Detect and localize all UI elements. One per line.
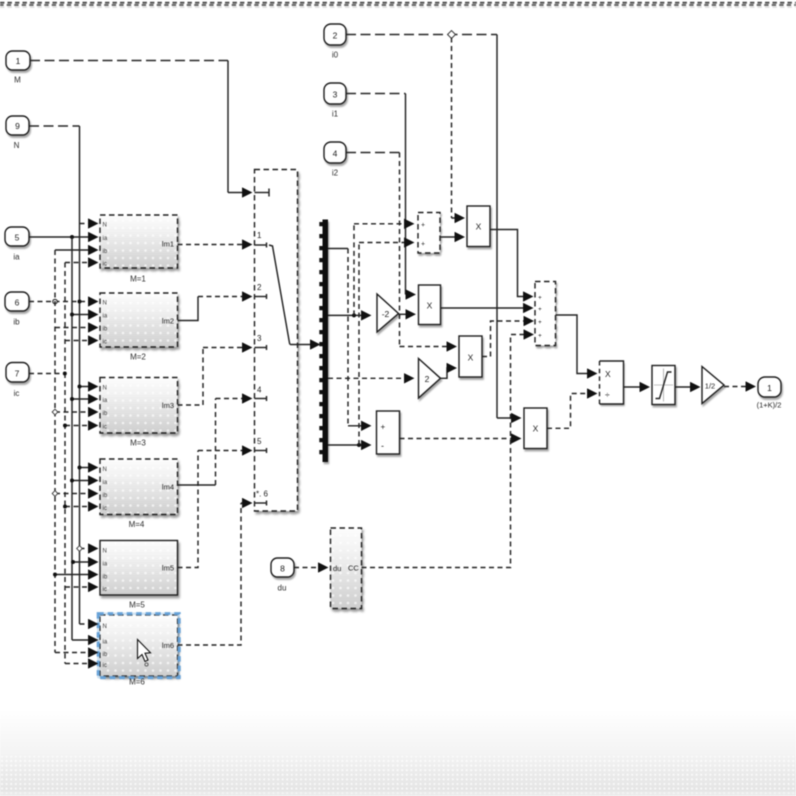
subsystem lm3 M=3	[100, 378, 178, 448]
wire ia vertical bus	[71, 237, 73, 640]
product X4	[524, 408, 547, 449]
svg-text:lm4: lm4	[162, 483, 174, 492]
wire S1 out to X1	[440, 236, 463, 238]
svg-text:M=5: M=5	[129, 601, 145, 610]
lm2 input stubs	[55, 313, 97, 341]
wire bus B vertical	[64, 263, 66, 664]
svg-text:2: 2	[333, 31, 338, 41]
svg-text:+: +	[381, 423, 386, 432]
demux bar	[323, 220, 329, 463]
svg-text:8: 8	[280, 564, 285, 574]
inport 2 i0	[324, 24, 346, 60]
wire demux out3 to gain 2	[328, 377, 413, 379]
lm6 input stubs	[55, 624, 97, 664]
svg-text:6: 6	[15, 298, 20, 308]
svg-text:X: X	[427, 301, 433, 311]
svg-text:du: du	[333, 564, 341, 573]
svg-text:ia: ia	[103, 236, 108, 242]
svg-text:ib: ib	[103, 327, 108, 333]
svg-text:4: 4	[257, 386, 262, 395]
svg-text:1/2: 1/2	[705, 382, 715, 391]
wire -2 out to X2	[399, 313, 415, 315]
gain 2	[419, 359, 441, 399]
wire N vertical bus	[79, 126, 81, 624]
svg-text:N: N	[14, 141, 20, 150]
sum block S1	[418, 213, 440, 254]
svg-text:X: X	[476, 222, 482, 232]
crossing circle ib	[53, 299, 57, 303]
svg-text:ic: ic	[103, 663, 107, 669]
product X3	[459, 336, 482, 377]
svg-text:+: +	[421, 222, 425, 229]
svg-text:2: 2	[257, 283, 262, 292]
outport 1 (1+K)/2	[757, 377, 782, 410]
svg-text:lm6: lm6	[162, 641, 174, 650]
svg-text:M=6: M=6	[129, 678, 145, 687]
bottom gradient band	[0, 710, 796, 796]
svg-text:M: M	[14, 76, 21, 85]
svg-text:3: 3	[257, 334, 262, 343]
inport 4 i2	[324, 142, 346, 178]
bottom dotted texture	[0, 756, 796, 796]
wire S2 out to X4 in2	[400, 438, 520, 440]
inport 8 du	[271, 558, 294, 593]
wire saturation out to gain 1/2	[675, 386, 699, 388]
svg-text:1: 1	[257, 231, 262, 240]
svg-text:ib: ib	[103, 575, 108, 581]
svg-text:CC: CC	[348, 564, 359, 573]
wire branch to sum1 in1	[354, 224, 413, 316]
wire ia to lm1	[29, 236, 97, 238]
subsystem lm5 M=5	[100, 541, 178, 610]
svg-text:1: 1	[767, 383, 772, 393]
gain -2	[377, 294, 399, 332]
svg-text:lm1: lm1	[162, 240, 174, 249]
svg-text:+: +	[538, 319, 542, 326]
svg-text:N: N	[103, 624, 107, 630]
lm4 input stubs	[52, 466, 96, 509]
svg-text:M=1: M=1	[130, 275, 146, 284]
mouse cursor	[138, 640, 151, 667]
saturation block	[652, 366, 675, 405]
wire lm5 out to switch in5	[178, 451, 251, 568]
svg-text:1: 1	[16, 56, 21, 66]
wire divide out to saturation	[624, 386, 649, 388]
junction ib at N bus	[78, 300, 82, 304]
svg-text:ic: ic	[103, 262, 107, 268]
svg-text:X: X	[533, 424, 539, 434]
svg-text:+: +	[538, 295, 542, 302]
inport 9 N	[6, 116, 29, 150]
subsystem lm6 M=6 selected	[97, 613, 180, 687]
svg-text:du: du	[278, 584, 287, 593]
wire X2 out to add in2	[441, 307, 532, 309]
svg-text:5: 5	[257, 437, 262, 446]
wire lm4 out to switch in4	[178, 399, 251, 486]
svg-text:ib: ib	[103, 249, 108, 255]
svg-text:lm2: lm2	[162, 317, 174, 326]
wire gain 1/2 to outport	[724, 386, 754, 388]
wire X3 out to add in3	[482, 321, 532, 357]
top dashed border	[0, 3, 796, 8]
wire du to CC	[294, 567, 327, 569]
wire i0 down to X4	[496, 35, 498, 419]
svg-text:N: N	[103, 549, 107, 555]
wire ib to lm2	[29, 301, 97, 303]
svg-text:ib: ib	[103, 652, 108, 658]
inport 5 ia	[5, 227, 29, 262]
svg-text:ia: ia	[103, 398, 108, 404]
svg-text:i0: i0	[332, 51, 339, 60]
svg-text:ia: ia	[13, 253, 20, 262]
subsystem lm1 M=1	[100, 215, 178, 284]
svg-text:2: 2	[425, 374, 430, 384]
inport 7 ic	[6, 363, 29, 399]
svg-text:lm5: lm5	[162, 564, 174, 573]
svg-text:(1+K)/2: (1+K)/2	[757, 401, 782, 410]
svg-text:5: 5	[15, 233, 20, 243]
wire i2	[346, 153, 455, 347]
svg-text:+: +	[538, 306, 542, 313]
subsystem CC	[331, 528, 362, 609]
wire i0 branch down to X1	[451, 38, 453, 219]
wire demux out2 to gain -2	[328, 314, 370, 316]
svg-text:4: 4	[333, 149, 338, 159]
inport 3 i1	[324, 83, 346, 119]
wire lm6 out to switch in6	[178, 503, 251, 645]
svg-text:7: 7	[15, 369, 20, 379]
wire i0 horizontal	[346, 34, 497, 36]
svg-text:ia: ia	[103, 314, 108, 320]
svg-text:M=4: M=4	[129, 520, 145, 529]
svg-text:ib: ib	[103, 493, 108, 499]
wire X4 out to divide in2	[547, 394, 596, 429]
svg-text:9: 9	[15, 121, 20, 131]
svg-text:ic: ic	[14, 389, 20, 398]
svg-text:ic: ic	[103, 506, 107, 512]
wire branch to sum1 in2	[359, 243, 413, 446]
wire lm1 out to switch in1	[178, 244, 251, 246]
svg-text:÷: ÷	[605, 390, 610, 400]
wire X1 out to add in1	[490, 230, 532, 297]
wire i1	[346, 94, 414, 295]
svg-text:ic: ic	[103, 340, 107, 346]
lm5 input stubs	[53, 546, 97, 587]
wire bus A vertical	[54, 250, 56, 653]
svg-text:ib: ib	[13, 318, 20, 327]
junction ic	[63, 372, 67, 376]
product X1	[467, 206, 490, 247]
svg-text:N: N	[103, 467, 107, 473]
svg-text:X: X	[605, 369, 611, 379]
svg-text:N: N	[103, 301, 107, 307]
wire ic	[29, 373, 65, 375]
wire demux out1 to sum2 plus	[328, 248, 348, 250]
subsystem lm2 M=2	[100, 293, 178, 362]
svg-text:i1: i1	[332, 110, 339, 119]
svg-text:i2: i2	[332, 169, 339, 178]
svg-text:lm3: lm3	[162, 401, 174, 410]
divide block X/	[600, 361, 624, 404]
svg-text:ia: ia	[103, 640, 108, 646]
wire switch out to demux	[290, 344, 319, 346]
subsystem lm4 M=4	[100, 459, 178, 529]
product X2	[419, 285, 441, 325]
wire M to multiport switch control	[30, 61, 251, 193]
wire lm2 out to switch in2	[178, 297, 251, 321]
svg-text:ia: ia	[103, 562, 108, 568]
svg-text:M=3: M=3	[130, 439, 146, 448]
lm1 input stubs	[55, 224, 97, 263]
inport 1 M	[6, 51, 30, 85]
wire CC out to add in4	[362, 335, 533, 568]
junction demux out4	[357, 443, 361, 447]
inport 6 ib	[5, 292, 29, 327]
gain 1/2	[702, 367, 724, 404]
lm3 input stubs	[52, 385, 96, 428]
junction diamond i0	[448, 31, 456, 39]
multiport switch U1	[255, 170, 298, 512]
svg-text:3: 3	[333, 90, 338, 100]
svg-text:ia: ia	[103, 480, 108, 486]
svg-text:+: +	[421, 241, 425, 248]
wire N horizontal	[29, 125, 80, 127]
wire add out to divide in1	[556, 315, 596, 374]
svg-text:-2: -2	[382, 309, 390, 319]
svg-text:ib: ib	[103, 411, 108, 417]
svg-text:X: X	[468, 353, 474, 363]
svg-text:N: N	[103, 223, 107, 229]
svg-text:ic: ic	[103, 587, 107, 593]
svg-text:N: N	[103, 386, 107, 392]
add block A1	[535, 282, 556, 346]
sum block S2 plus minus	[377, 411, 400, 454]
wire lm3 out to switch in3	[178, 348, 251, 406]
svg-text:M=2: M=2	[130, 353, 146, 362]
junction ia	[70, 235, 74, 239]
junction demux out2	[352, 313, 356, 317]
svg-text:*. 6: *. 6	[256, 490, 269, 499]
wire gain2 out to X3 in2	[441, 368, 456, 378]
svg-text:-: -	[381, 441, 384, 451]
svg-text:ic: ic	[103, 425, 107, 431]
wire demux out4 to sum2 minus	[328, 444, 370, 446]
svg-text:+: +	[538, 333, 542, 340]
